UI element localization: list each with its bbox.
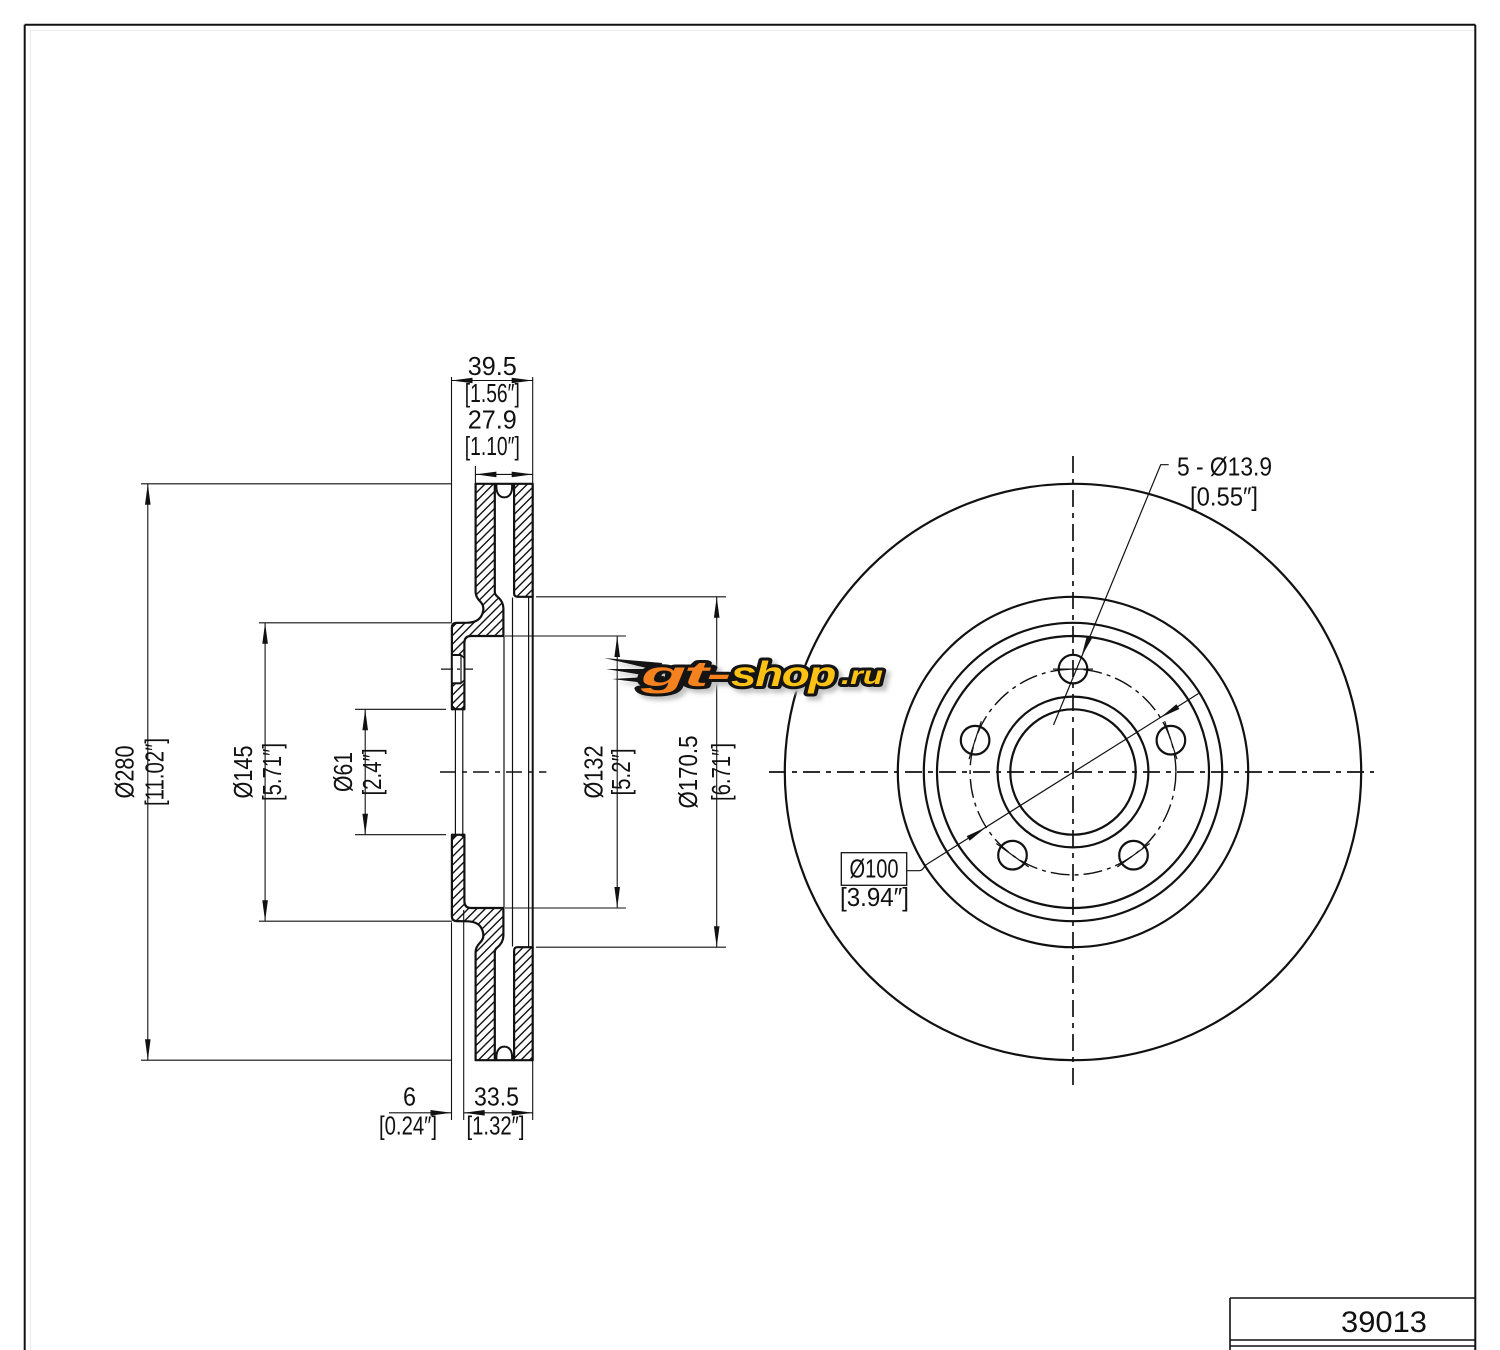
projected edges through hat cavity (503, 636, 505, 908)
svg-text:Ø280: Ø280 (110, 746, 140, 799)
svg-text:39013: 39013 (1341, 1306, 1427, 1339)
extension lines Ø170.5 (536, 596, 726, 598)
extension lines Ø132 (505, 635, 626, 637)
title block (1230, 1297, 1475, 1299)
hub boss circle (998, 697, 1149, 848)
svg-text:[5.2″]: [5.2″] (606, 749, 636, 796)
dimension Ø132 [5.2"] (616, 636, 618, 908)
five bolt holes Ø13.9 with tangential ticks (1059, 655, 1088, 684)
center bore circle Ø61 (1010, 709, 1135, 834)
svg-text:.ru: .ru (841, 662, 883, 690)
vent channel OD edge line (495, 483, 514, 485)
svg-text:[5.71″]: [5.71″] (257, 743, 287, 801)
disc outer circle Ø280 (785, 484, 1361, 1060)
svg-text:[11.02″]: [11.02″] (140, 738, 170, 806)
bolt hole in flange (section) (453, 655, 464, 683)
dimension Ø61 [2.4"] (364, 709, 366, 834)
svg-text:Ø100: Ø100 (850, 854, 899, 884)
svg-text:Ø132: Ø132 (579, 746, 609, 799)
leader 5-Ø13.9 (1054, 465, 1169, 725)
svg-text:[1.10″]: [1.10″] (465, 431, 520, 461)
dimension 33.5 [1.32"] (464, 1112, 533, 1114)
extension lines bottom 6 / 33.5 (451, 922, 453, 1120)
bolt circle Ø100 (centerline) (970, 669, 1176, 875)
extension lines Ø61 (355, 708, 446, 710)
svg-text:27.9: 27.9 (468, 405, 517, 435)
svg-text:[2.4″]: [2.4″] (357, 749, 387, 796)
section axis centerline (440, 771, 546, 773)
hat circle Ø145 (924, 623, 1222, 921)
disc section top half (plates, hat, flange) (452, 484, 504, 710)
dimension 27.9 [1.10"] (475, 473, 532, 475)
dimension 6 [0.24"] (389, 1112, 452, 1114)
drawing border frame (25, 24, 1476, 26)
svg-text:5 - Ø13.9: 5 - Ø13.9 (1177, 451, 1272, 481)
svg-text:shop: shop (731, 655, 836, 694)
dimension Ø170.5 [6.71"] (716, 597, 718, 947)
svg-text:[3.94″]: [3.94″] (840, 882, 909, 912)
svg-text:39.5: 39.5 (468, 351, 517, 381)
svg-text:[6.71″]: [6.71″] (706, 743, 736, 801)
front view centerline vertical (1072, 456, 1074, 1089)
svg-text:33.5: 33.5 (474, 1081, 519, 1111)
svg-text:gt-: gt- (639, 655, 730, 694)
svg-text:Ø145: Ø145 (228, 746, 258, 799)
svg-text:[0.55″]: [0.55″] (1190, 481, 1258, 511)
hat bore circle Ø132 (937, 636, 1209, 908)
dimension Ø280 [11.02"] (147, 484, 149, 1060)
front view centerline horizontal (769, 771, 1374, 773)
svg-text:[1.32″]: [1.32″] (467, 1111, 525, 1141)
dimension 39.5 [1.56"] (452, 380, 533, 382)
extension lines OD Ø280 (141, 483, 452, 485)
outboard face edge (532, 597, 534, 947)
svg-text:Ø170.5: Ø170.5 (673, 736, 703, 809)
friction ring inner circle Ø170.5 (898, 597, 1248, 947)
extension lines Ø145 (259, 622, 452, 624)
bolt hole centerline (section) (441, 668, 473, 670)
Ø100 bolt circle dimension (907, 694, 1199, 871)
disc section bottom half (plates, hat, flange) (452, 835, 504, 1060)
dimension Ø145 [5.71"] (264, 623, 266, 921)
svg-text:[0.24″]: [0.24″] (379, 1111, 437, 1141)
extension lines width 39.5 / 27.9 (451, 377, 453, 622)
svg-text:Ø61: Ø61 (328, 752, 358, 792)
gt-shop.ru watermark logo (608, 659, 887, 698)
center bore Ø61 (section) (453, 707, 464, 838)
svg-text:6: 6 (403, 1081, 416, 1111)
svg-text:[1.56″]: [1.56″] (465, 378, 520, 408)
